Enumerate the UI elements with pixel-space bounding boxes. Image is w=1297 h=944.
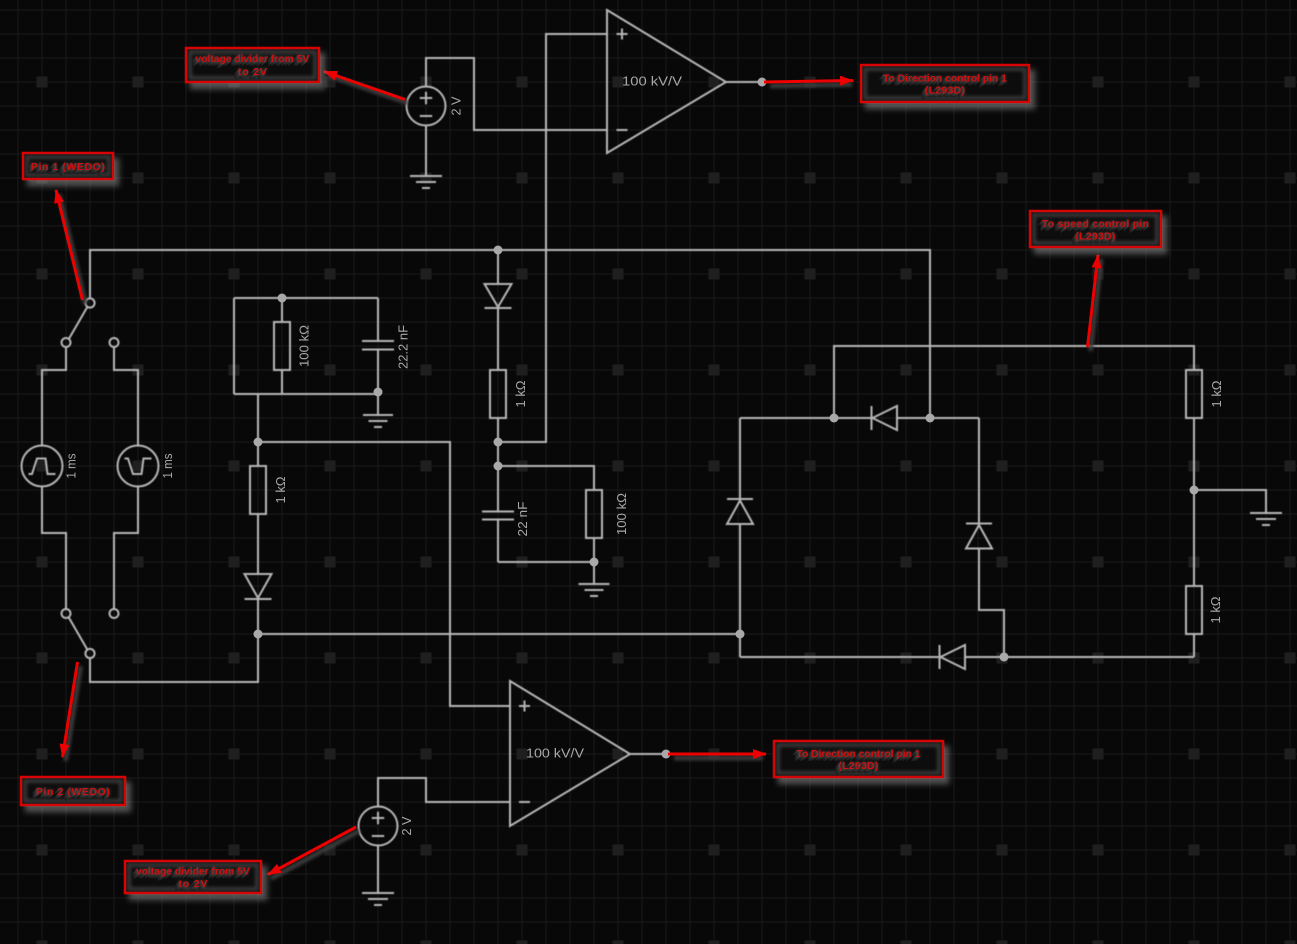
arrow to voltage divider label bottom xyxy=(268,827,356,875)
wire C2 top stub xyxy=(497,466,499,512)
wire opamp1 output xyxy=(726,81,762,83)
resistor R2 1k xyxy=(250,466,266,514)
wire RC left xyxy=(233,298,235,394)
wire diode D1 to node xyxy=(257,600,259,634)
wire R1 bottom stub xyxy=(281,370,283,394)
svg-text:2 V: 2 V xyxy=(449,96,464,115)
diode D6 xyxy=(940,645,966,669)
diode D4 xyxy=(727,499,753,524)
arrow to voltage divider label top xyxy=(324,72,405,100)
junction dot out1 xyxy=(758,78,767,87)
ground G2 xyxy=(363,392,393,427)
wire node to R4 xyxy=(498,466,594,490)
switch SW1 lever xyxy=(69,307,88,339)
wire node to R6 xyxy=(1193,490,1195,586)
switch SW2 lever xyxy=(69,618,88,650)
svg-text:To Direction control pin 1: To Direction control pin 1 xyxy=(883,73,1007,85)
ground G3 xyxy=(579,562,610,596)
svg-text:1 ms: 1 ms xyxy=(160,453,175,478)
wire R2 top xyxy=(257,442,259,466)
wire D4 to node xyxy=(739,524,741,634)
wire main top net from switch pin1 xyxy=(90,250,930,418)
svg-text:(L293D): (L293D) xyxy=(925,85,965,97)
arrow to direction control label bottom xyxy=(668,753,766,756)
wire R6 bottom xyxy=(1193,634,1195,657)
pulse source V2 xyxy=(118,446,159,487)
wire C2 bottom stub xyxy=(497,520,499,563)
resistor R1 100k xyxy=(274,322,290,370)
wire D5 to bottom net xyxy=(979,549,1004,658)
wire R3 bottom xyxy=(497,418,499,442)
annotation box: Pin 1 (WEDO) xyxy=(23,153,113,179)
switch SW2 contact D xyxy=(62,609,71,618)
wire bottom net left xyxy=(740,656,939,658)
svg-text:1 kΩ: 1 kΩ xyxy=(1208,596,1223,623)
wire C2 to R4 bottom xyxy=(498,561,594,563)
annotation box: To Direction control pin 1 (bottom) xyxy=(774,741,943,777)
arrow to speed control label xyxy=(1088,255,1099,347)
arrow to direction control label top xyxy=(764,81,853,83)
junction dot R2 top xyxy=(254,438,263,447)
svg-text:100 kΩ: 100 kΩ xyxy=(297,325,312,367)
annotation box: To speed control pin (L293D) xyxy=(1030,211,1161,247)
wire left branch down xyxy=(739,418,741,498)
op-amp U2 xyxy=(510,681,630,826)
capacitor C2 22nF xyxy=(482,512,514,520)
svg-text:Pin 2 (WEDO): Pin 2 (WEDO) xyxy=(36,786,110,798)
svg-text:to 2V: to 2V xyxy=(238,66,267,78)
voltage source V4 2V xyxy=(359,807,398,846)
arrow to Pin 1 label xyxy=(56,190,83,300)
wire opamp2 output xyxy=(630,753,666,755)
wire mid branch down xyxy=(978,418,980,523)
annotation box: voltage divider from 5V to 2V (top) xyxy=(186,48,319,82)
svg-text:To Direction control pin 1: To Direction control pin 1 xyxy=(797,748,921,760)
svg-text:22.2 nF: 22.2 nF xyxy=(396,325,411,369)
svg-text:(L293D): (L293D) xyxy=(839,760,879,772)
svg-text:To speed control pin: To speed control pin xyxy=(1042,218,1149,230)
svg-text:100 kΩ: 100 kΩ xyxy=(614,493,629,535)
voltage source V3 2V xyxy=(407,87,446,126)
junction dot D1 bottom xyxy=(254,630,263,639)
switch SW1 pivot terminal xyxy=(85,298,94,307)
wire node to ground G5 xyxy=(1194,490,1266,513)
diode D2 xyxy=(485,284,512,308)
wire node pair xyxy=(497,442,499,466)
junction dot out2 xyxy=(662,750,671,759)
annotation arrows (shadows) xyxy=(59,76,1101,879)
ground G1 xyxy=(410,125,442,188)
wire node to opamp2 plus xyxy=(258,442,510,706)
switch SW1 contact B xyxy=(62,338,71,347)
wire V1 to switch SW2 contact D xyxy=(42,486,66,609)
junction dot left diode net xyxy=(736,630,745,639)
svg-text:2 V: 2 V xyxy=(399,816,414,835)
wire C1 top stub xyxy=(377,298,379,341)
wire diode row left xyxy=(740,417,871,419)
junction dot C2 top xyxy=(494,462,503,471)
svg-text:22 nF: 22 nF xyxy=(515,501,530,536)
junction dot R4 bottom xyxy=(590,558,599,567)
junction dot divider xyxy=(1190,486,1199,495)
svg-text:(L293D): (L293D) xyxy=(1076,231,1116,243)
ground G4 xyxy=(362,845,394,905)
resistor R4 100k xyxy=(586,490,602,538)
wire bottom net right xyxy=(965,656,1194,658)
svg-text:1 kΩ: 1 kΩ xyxy=(1209,380,1224,407)
junction dot bottom net xyxy=(1000,653,1009,662)
pulse source V1 xyxy=(22,446,63,487)
resistor R3 1k xyxy=(490,370,506,418)
ground G5 xyxy=(1250,513,1282,525)
annotation box: To Direction control pin 1 (top) xyxy=(861,65,1029,102)
wire R5 to node xyxy=(1193,418,1195,490)
wire R2 to D1 xyxy=(257,514,259,574)
wire D2 to R3 xyxy=(497,308,499,370)
junction dot top net xyxy=(494,246,503,255)
junction dot R3 bottom xyxy=(494,438,503,447)
diode D3 xyxy=(872,406,898,430)
annotation box: voltage divider from 5V to 2V (bottom) xyxy=(125,861,261,894)
svg-text:voltage divider from 5V: voltage divider from 5V xyxy=(136,866,250,878)
wire node to opamp1 plus branch xyxy=(498,34,607,442)
svg-text:1 kΩ: 1 kΩ xyxy=(513,380,528,407)
wire R1 top stub xyxy=(281,298,283,322)
svg-text:1 ms: 1 ms xyxy=(64,453,79,478)
switch SW2 pivot terminal xyxy=(85,649,94,658)
diode D1 xyxy=(245,574,272,599)
resistor R5 1k xyxy=(1186,370,1202,418)
wire RC bottom xyxy=(234,393,378,395)
wire speed net y346 xyxy=(834,346,1194,418)
wire C to pulse source V2 xyxy=(114,347,138,446)
wire V4 to opamp2 minus xyxy=(378,778,510,807)
wire pin2 net bottom xyxy=(90,634,258,682)
wire B to pulse source V1 xyxy=(42,347,66,446)
wire node down jog xyxy=(739,634,741,657)
wire RC tap down to node xyxy=(257,394,259,442)
junction dot RC top xyxy=(278,294,287,303)
switch SW1 contact C xyxy=(110,338,119,347)
switch SW2 contact E xyxy=(110,609,119,618)
junction dot speed right xyxy=(926,414,935,423)
wire diode row right xyxy=(897,417,979,419)
op-amp U1 xyxy=(607,10,726,153)
annotation box: Pin 2 (WEDO) xyxy=(21,777,125,805)
svg-text:1 kΩ: 1 kΩ xyxy=(273,476,288,503)
junction dot C1 bottom xyxy=(374,388,383,397)
wire RC top xyxy=(234,297,378,299)
svg-text:Pin 1 (WEDO): Pin 1 (WEDO) xyxy=(31,161,105,173)
svg-text:100 kV/V: 100 kV/V xyxy=(526,746,584,761)
wire net y634 xyxy=(258,633,740,635)
svg-text:to 2V: to 2V xyxy=(179,878,208,890)
resistor R6 1k xyxy=(1186,586,1202,634)
junction dot speed left xyxy=(830,414,839,423)
capacitor C1 22.2nF xyxy=(362,341,394,350)
wire top node to diode D2 xyxy=(497,250,499,284)
wire C1 bottom stub xyxy=(377,350,379,393)
wire R4 bottom xyxy=(593,538,595,562)
arrow to Pin 2 label xyxy=(63,662,78,757)
diode D5 xyxy=(966,524,992,549)
svg-text:100 kV/V: 100 kV/V xyxy=(622,74,682,89)
wire V3 to opamp1 minus xyxy=(426,58,607,130)
svg-text:voltage divider from 5V: voltage divider from 5V xyxy=(196,53,310,65)
wire V2 to switch SW2 contact E xyxy=(114,486,138,609)
